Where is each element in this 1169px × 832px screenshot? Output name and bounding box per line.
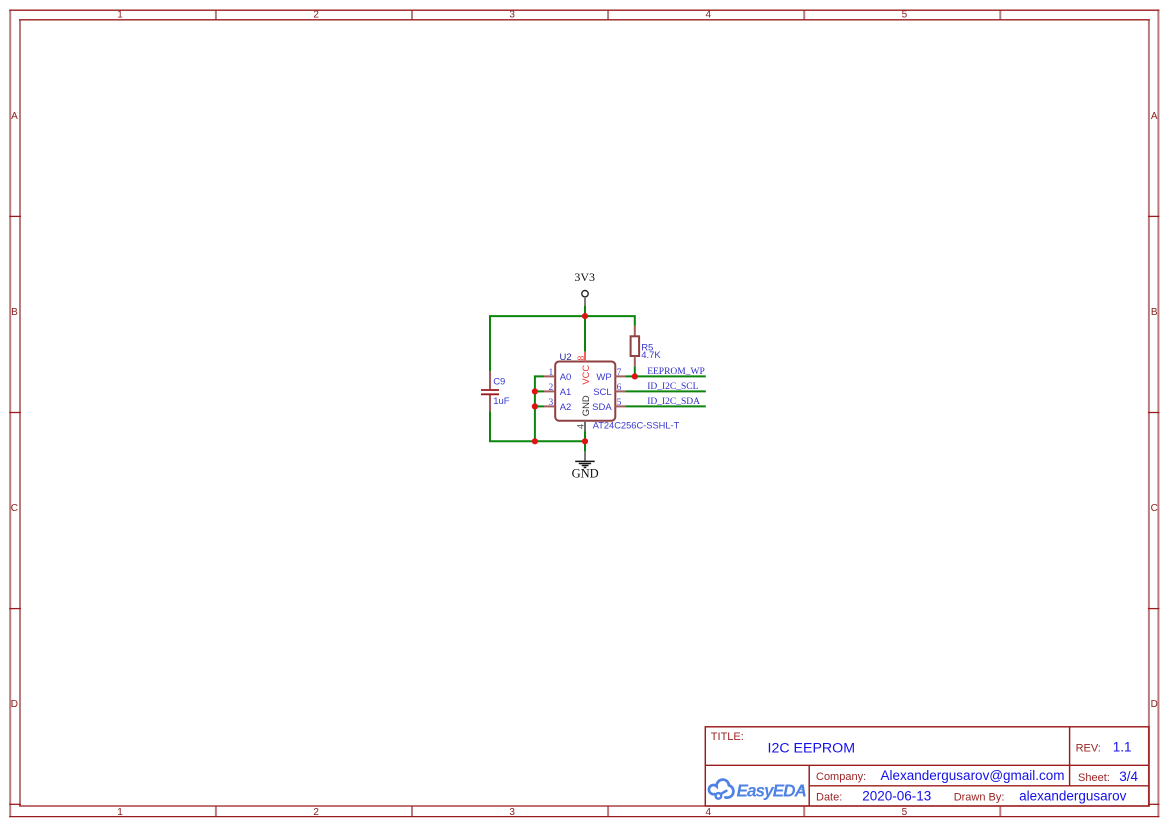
- junction pin3: [532, 403, 538, 409]
- junction R5 / EEPROM_WP: [632, 373, 638, 379]
- svg-text:1: 1: [548, 368, 553, 378]
- svg-text:alexandergusarov: alexandergusarov: [1019, 789, 1127, 804]
- power flag 3V3: [574, 270, 595, 306]
- pin 3 stub: [544, 405, 555, 407]
- svg-text:4: 4: [577, 424, 587, 429]
- svg-text:B: B: [11, 307, 18, 318]
- pin 6 stub: [615, 390, 625, 392]
- wire bottom rail: [490, 411, 585, 441]
- svg-text:3V3: 3V3: [574, 270, 595, 284]
- svg-text:WP: WP: [596, 372, 611, 383]
- pin 5 stub: [615, 405, 625, 407]
- svg-text:4: 4: [706, 10, 712, 21]
- svg-text:3: 3: [548, 398, 553, 408]
- svg-text:Company:: Company:: [816, 771, 866, 783]
- capacitor C9: [481, 371, 499, 411]
- EasyEDA logo: [709, 780, 734, 799]
- svg-text:1uF: 1uF: [493, 396, 510, 407]
- svg-text:I2C EEPROM: I2C EEPROM: [768, 740, 856, 756]
- svg-text:2: 2: [548, 383, 553, 393]
- svg-text:GND: GND: [580, 395, 591, 416]
- svg-text:C: C: [11, 503, 18, 514]
- svg-text:Alexandergusarov@gmail.com: Alexandergusarov@gmail.com: [881, 768, 1065, 783]
- svg-text:3/4: 3/4: [1119, 769, 1138, 784]
- svg-text:5: 5: [617, 398, 622, 408]
- wire R5 to EEPROM_WP net: [634, 367, 636, 377]
- wire 3V3 to junction: [584, 306, 586, 316]
- junction pin2: [532, 388, 538, 394]
- wire net ID_I2C_SDA: [625, 405, 706, 407]
- svg-text:D: D: [1151, 699, 1158, 710]
- pin 2 stub: [544, 390, 555, 392]
- junction bottom rail / pin4: [582, 438, 588, 444]
- junction top rail: [582, 313, 588, 319]
- wire net ID_I2C_SCL: [625, 390, 706, 392]
- wire junction down to U2 VCC pin: [584, 316, 586, 352]
- svg-text:Sheet:: Sheet:: [1078, 772, 1110, 784]
- pin 7 stub: [615, 375, 625, 377]
- svg-text:U2: U2: [560, 352, 572, 363]
- svg-text:A2: A2: [560, 402, 572, 413]
- svg-text:5: 5: [902, 10, 908, 21]
- svg-text:6: 6: [617, 383, 622, 393]
- svg-text:SDA: SDA: [592, 402, 612, 413]
- svg-text:A0: A0: [560, 372, 572, 383]
- svg-text:3: 3: [509, 10, 515, 21]
- svg-text:1: 1: [117, 10, 123, 21]
- svg-text:7: 7: [617, 368, 622, 378]
- svg-text:3: 3: [509, 807, 515, 818]
- svg-text:5: 5: [902, 807, 908, 818]
- svg-text:TITLE:: TITLE:: [711, 731, 744, 743]
- resistor R5: [631, 326, 640, 367]
- svg-text:A: A: [11, 111, 18, 122]
- svg-text:ID_I2C_SCL: ID_I2C_SCL: [647, 382, 698, 392]
- wire pins A0-A2 to left bus: [535, 376, 544, 441]
- svg-text:Drawn By:: Drawn By:: [954, 792, 1005, 804]
- svg-text:8: 8: [577, 356, 587, 361]
- svg-text:4: 4: [706, 807, 712, 818]
- svg-text:SCL: SCL: [593, 387, 611, 398]
- pin 4 GND stub: [584, 421, 586, 431]
- svg-text:1: 1: [117, 807, 123, 818]
- op IC U2 body: [555, 362, 615, 421]
- svg-text:EEPROM_WP: EEPROM_WP: [647, 367, 705, 377]
- svg-text:2020-06-13: 2020-06-13: [862, 788, 931, 803]
- svg-text:VCC: VCC: [580, 365, 591, 385]
- wire pin3 link: [535, 405, 544, 407]
- wire net EEPROM_WP: [625, 375, 706, 377]
- junction bottom left bus: [532, 438, 538, 444]
- svg-text:REV:: REV:: [1076, 742, 1101, 754]
- svg-text:EasyEDA: EasyEDA: [737, 780, 807, 800]
- wire pin2 link: [535, 390, 544, 392]
- svg-text:C: C: [1151, 503, 1158, 514]
- svg-text:Date:: Date:: [816, 791, 842, 803]
- wire top rail to R5: [585, 316, 635, 326]
- svg-text:AT24C256C-SSHL-T: AT24C256C-SSHL-T: [593, 420, 680, 430]
- svg-text:C9: C9: [493, 377, 505, 388]
- pin 8 VCC stub: [584, 352, 586, 362]
- svg-text:2: 2: [313, 807, 319, 818]
- ground GND: [572, 451, 599, 480]
- svg-text:A1: A1: [560, 387, 572, 398]
- svg-text:A: A: [1151, 111, 1158, 122]
- svg-text:2: 2: [313, 10, 319, 21]
- svg-text:GND: GND: [572, 467, 599, 481]
- svg-text:D: D: [11, 699, 18, 710]
- wire top rail to C9: [490, 316, 585, 371]
- wire pin4 to ground: [584, 431, 586, 451]
- svg-text:ID_I2C_SDA: ID_I2C_SDA: [647, 397, 700, 407]
- title block: [705, 727, 1149, 806]
- svg-text:B: B: [1151, 307, 1158, 318]
- svg-text:1.1: 1.1: [1113, 739, 1132, 754]
- pin 1 stub: [544, 375, 555, 377]
- svg-text:4.7K: 4.7K: [641, 350, 661, 361]
